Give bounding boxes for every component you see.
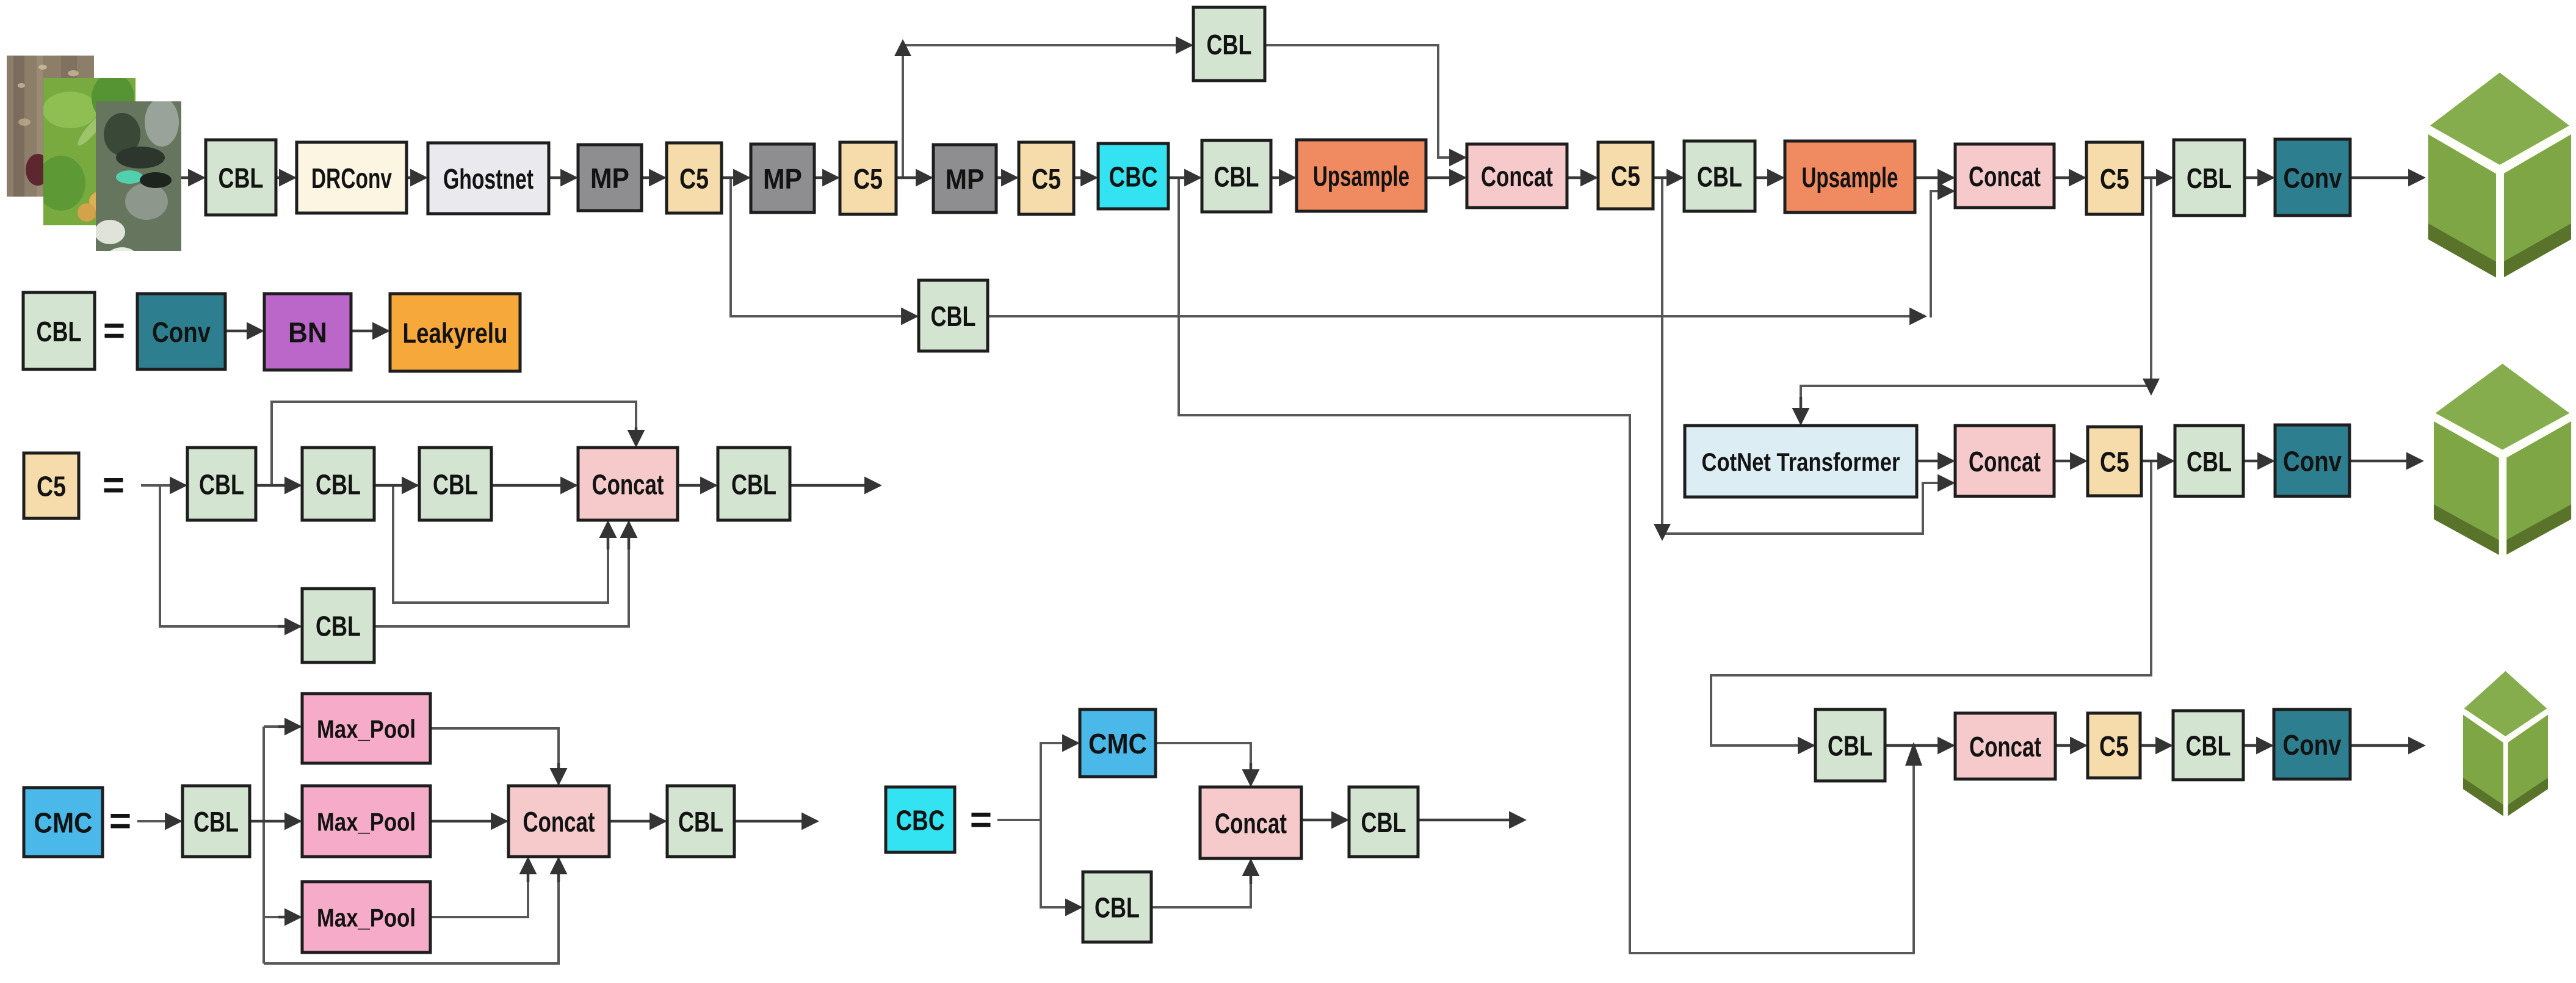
svg-text:C5: C5 bbox=[2099, 730, 2129, 762]
svg-text:=: = bbox=[103, 310, 125, 352]
svg-text:Concat: Concat bbox=[523, 806, 595, 838]
svg-text:Upsample: Upsample bbox=[1313, 161, 1409, 192]
svg-text:CBL: CBL bbox=[1214, 161, 1259, 193]
svg-text:=: = bbox=[103, 465, 125, 507]
svg-text:CBL: CBL bbox=[1361, 807, 1406, 838]
svg-text:CBL: CBL bbox=[316, 469, 361, 501]
svg-text:MP: MP bbox=[763, 163, 802, 195]
svg-text:CBL: CBL bbox=[433, 469, 478, 501]
svg-text:C5: C5 bbox=[2100, 446, 2129, 478]
svg-text:C5: C5 bbox=[2100, 163, 2129, 195]
svg-text:Concat: Concat bbox=[1969, 446, 2041, 477]
svg-text:CBC: CBC bbox=[896, 805, 945, 836]
svg-text:C5: C5 bbox=[853, 163, 883, 195]
svg-text:CotNet Transformer: CotNet Transformer bbox=[1702, 448, 1900, 476]
svg-text:CBL: CBL bbox=[37, 316, 82, 347]
svg-text:CBL: CBL bbox=[678, 806, 723, 838]
svg-text:C5: C5 bbox=[1611, 161, 1640, 192]
svg-text:Concat: Concat bbox=[592, 469, 664, 501]
svg-text:Concat: Concat bbox=[1481, 161, 1553, 192]
svg-text:Concat: Concat bbox=[1215, 808, 1287, 840]
svg-text:=: = bbox=[109, 800, 131, 843]
svg-text:C5: C5 bbox=[1032, 163, 1061, 195]
svg-text:Conv: Conv bbox=[152, 316, 211, 348]
svg-text:CMC: CMC bbox=[34, 807, 93, 839]
svg-text:Conv: Conv bbox=[2284, 162, 2342, 194]
svg-text:Conv: Conv bbox=[2283, 446, 2342, 477]
svg-text:CBL: CBL bbox=[731, 469, 776, 501]
svg-text:CMC: CMC bbox=[1088, 728, 1147, 760]
svg-text:CBL: CBL bbox=[931, 300, 976, 332]
svg-text:CBL: CBL bbox=[1828, 730, 1873, 762]
svg-text:CBL: CBL bbox=[1207, 29, 1252, 60]
svg-text:CBL: CBL bbox=[1697, 161, 1742, 193]
svg-text:=: = bbox=[970, 799, 992, 841]
svg-text:MP: MP bbox=[590, 162, 629, 194]
svg-text:C5: C5 bbox=[37, 471, 66, 502]
svg-text:DRConv: DRConv bbox=[311, 162, 392, 194]
svg-text:Concat: Concat bbox=[1969, 731, 2041, 763]
svg-text:CBL: CBL bbox=[2187, 162, 2232, 194]
svg-text:Max_Pool: Max_Pool bbox=[317, 715, 416, 744]
svg-text:Max_Pool: Max_Pool bbox=[317, 904, 416, 932]
svg-text:CBL: CBL bbox=[316, 611, 361, 642]
svg-text:BN: BN bbox=[288, 317, 327, 349]
svg-text:CBL: CBL bbox=[194, 806, 239, 838]
svg-text:CBC: CBC bbox=[1109, 161, 1158, 193]
svg-text:Leakyrelu: Leakyrelu bbox=[403, 317, 508, 349]
svg-text:CBL: CBL bbox=[1094, 892, 1140, 924]
svg-text:Max_Pool: Max_Pool bbox=[317, 808, 416, 836]
svg-text:Upsample: Upsample bbox=[1802, 162, 1898, 194]
svg-text:MP: MP bbox=[946, 164, 985, 195]
svg-text:CBL: CBL bbox=[2186, 730, 2231, 762]
svg-text:CBL: CBL bbox=[199, 469, 244, 501]
svg-text:Ghostnet: Ghostnet bbox=[443, 163, 534, 195]
svg-text:CBL: CBL bbox=[2187, 446, 2232, 477]
svg-text:C5: C5 bbox=[679, 163, 709, 195]
svg-text:Concat: Concat bbox=[1969, 161, 2041, 192]
svg-text:Conv: Conv bbox=[2283, 729, 2342, 761]
svg-text:CBL: CBL bbox=[219, 162, 264, 194]
